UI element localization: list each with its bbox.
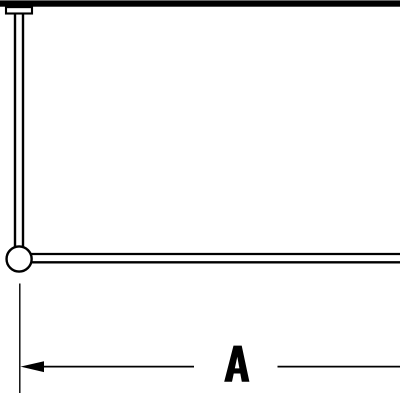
dimension arrowhead	[21, 361, 45, 372]
ceiling bracket	[6, 7, 32, 13]
extension line	[19, 284, 21, 394]
dimension line right segment	[278, 366, 400, 368]
support profile (vertical double line)	[15, 13, 23, 250]
dimension line left segment	[43, 366, 194, 368]
panel (horizontal double line)	[26, 254, 400, 262]
label A	[224, 346, 249, 382]
pivot circle	[7, 246, 32, 271]
ceiling bar	[0, 0, 400, 6]
